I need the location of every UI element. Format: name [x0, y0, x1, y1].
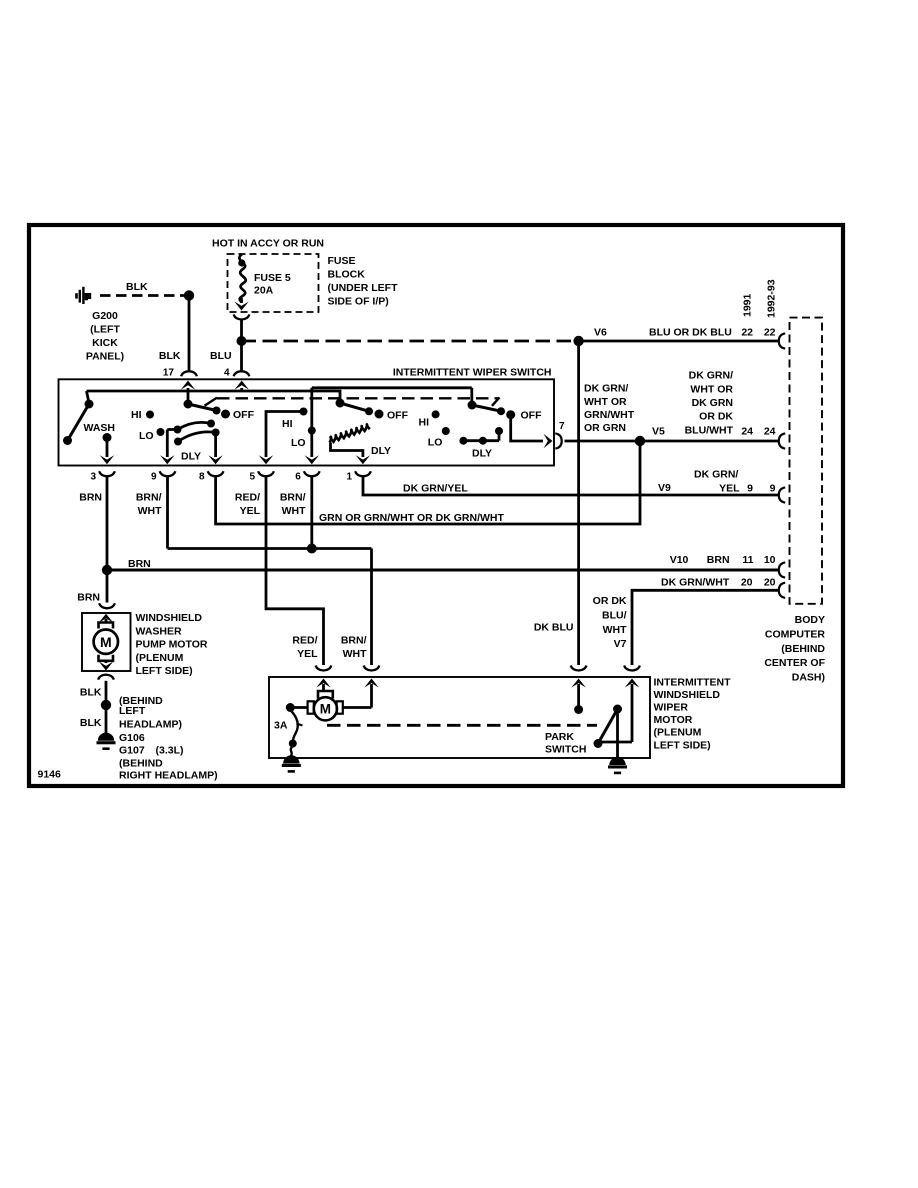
svg-text:KICK: KICK: [92, 337, 118, 349]
svg-text:(PLENUM: (PLENUM: [136, 652, 184, 664]
svg-text:9: 9: [151, 472, 157, 483]
svg-text:DASH): DASH): [792, 672, 825, 684]
svg-text:INTERMITTENT: INTERMITTENT: [654, 677, 732, 689]
svg-text:9: 9: [770, 483, 776, 495]
svg-text:11: 11: [742, 554, 753, 566]
svg-text:MOTOR: MOTOR: [654, 714, 693, 726]
svg-text:OFF: OFF: [521, 410, 543, 422]
svg-text:DLY: DLY: [371, 445, 391, 457]
svg-text:10: 10: [764, 554, 776, 566]
svg-text:4: 4: [224, 368, 230, 379]
svg-text:HI: HI: [419, 417, 430, 429]
svg-text:BRN/: BRN/: [280, 492, 306, 504]
svg-text:20A: 20A: [254, 285, 274, 297]
svg-text:BRN: BRN: [79, 492, 102, 504]
svg-text:LEFT SIDE): LEFT SIDE): [136, 665, 193, 677]
svg-text:BLK: BLK: [159, 350, 181, 362]
svg-text:CENTER OF: CENTER OF: [764, 657, 825, 669]
svg-text:V7: V7: [614, 638, 627, 650]
svg-text:LO: LO: [291, 437, 306, 449]
svg-text:17: 17: [163, 368, 175, 379]
svg-text:DK GRN/: DK GRN/: [694, 469, 738, 481]
svg-text:RIGHT HEADLAMP): RIGHT HEADLAMP): [119, 770, 218, 782]
svg-text:WHT OR: WHT OR: [690, 383, 733, 395]
svg-text:YEL: YEL: [240, 505, 261, 517]
svg-text:BLU/WHT: BLU/WHT: [685, 424, 734, 436]
svg-text:22: 22: [764, 327, 776, 339]
svg-text:DK GRN: DK GRN: [692, 397, 733, 409]
svg-text:LO: LO: [139, 430, 154, 442]
svg-text:DK BLU: DK BLU: [534, 622, 574, 634]
svg-text:(LEFT: (LEFT: [90, 324, 120, 336]
svg-text:3A: 3A: [274, 720, 288, 732]
svg-text:GRN OR GRN/WHT OR DK GRN/WHT: GRN OR GRN/WHT OR DK GRN/WHT: [319, 512, 504, 524]
svg-text:DLY: DLY: [181, 451, 201, 463]
svg-text:WHT OR: WHT OR: [584, 396, 627, 408]
svg-text:(BEHIND: (BEHIND: [119, 757, 163, 769]
svg-text:BLK: BLK: [80, 687, 102, 699]
svg-text:(PLENUM: (PLENUM: [654, 727, 702, 739]
svg-text:20: 20: [764, 577, 776, 589]
svg-text:SWITCH: SWITCH: [545, 744, 586, 756]
svg-text:WIPER: WIPER: [654, 702, 689, 714]
svg-text:BRN/: BRN/: [136, 492, 162, 504]
svg-text:WASH: WASH: [84, 422, 116, 434]
svg-text:3: 3: [90, 472, 96, 483]
svg-text:HI: HI: [131, 409, 142, 421]
svg-text:9: 9: [747, 483, 753, 495]
svg-text:BRN: BRN: [707, 554, 730, 566]
svg-text:M: M: [320, 702, 331, 717]
svg-text:BRN: BRN: [77, 592, 100, 604]
svg-text:V6: V6: [594, 327, 607, 339]
svg-text:22: 22: [741, 327, 753, 339]
svg-text:FUSE 5: FUSE 5: [254, 272, 291, 284]
svg-text:YEL: YEL: [297, 648, 318, 660]
svg-text:LEFT SIDE): LEFT SIDE): [654, 739, 711, 751]
svg-text:1991: 1991: [742, 293, 754, 317]
svg-text:OFF: OFF: [233, 409, 255, 421]
svg-text:BODY: BODY: [795, 614, 825, 626]
svg-text:WINDSHIELD: WINDSHIELD: [654, 689, 721, 701]
svg-text:(3.3L): (3.3L): [156, 745, 184, 757]
svg-text:RED/: RED/: [235, 492, 260, 504]
svg-text:WHT: WHT: [343, 648, 367, 660]
svg-text:WINDSHIELD: WINDSHIELD: [136, 612, 203, 624]
svg-text:(BEHIND: (BEHIND: [781, 643, 825, 655]
svg-text:FUSE: FUSE: [328, 255, 356, 267]
svg-text:OR DK: OR DK: [699, 411, 733, 423]
svg-text:SIDE OF I/P): SIDE OF I/P): [328, 296, 389, 308]
svg-text:OFF: OFF: [387, 409, 409, 421]
svg-text:G200: G200: [92, 310, 118, 322]
svg-text:9146: 9146: [38, 769, 62, 781]
svg-text:BLK: BLK: [80, 717, 102, 729]
svg-text:WHT: WHT: [282, 505, 306, 517]
svg-text:5: 5: [249, 472, 255, 483]
svg-text:OR DK: OR DK: [593, 595, 627, 607]
svg-text:8: 8: [199, 472, 205, 483]
svg-text:G106: G106: [119, 732, 145, 744]
svg-text:7: 7: [559, 421, 565, 432]
svg-text:BLK: BLK: [126, 281, 148, 293]
svg-text:BLU: BLU: [210, 350, 232, 362]
svg-text:24: 24: [764, 426, 776, 438]
svg-text:LO: LO: [428, 437, 443, 449]
svg-text:V5: V5: [652, 426, 665, 438]
svg-text:HOT IN ACCY OR RUN: HOT IN ACCY OR RUN: [212, 238, 324, 250]
svg-text:WHT: WHT: [138, 505, 162, 517]
svg-text:LEFT: LEFT: [119, 705, 146, 717]
svg-text:INTERMITTENT WIPER SWITCH: INTERMITTENT WIPER SWITCH: [393, 367, 552, 379]
svg-text:HEADLAMP): HEADLAMP): [119, 719, 182, 731]
svg-text:BLU/: BLU/: [602, 609, 627, 621]
svg-text:1: 1: [346, 472, 352, 483]
svg-text:6: 6: [295, 472, 301, 483]
svg-text:DK GRN/: DK GRN/: [584, 383, 628, 395]
svg-text:WHT: WHT: [603, 624, 627, 636]
svg-text:OR GRN: OR GRN: [584, 422, 626, 434]
svg-text:BLOCK: BLOCK: [328, 269, 366, 281]
svg-text:1992-93: 1992-93: [766, 279, 778, 318]
svg-text:G107: G107: [119, 745, 145, 757]
svg-text:20: 20: [741, 577, 753, 589]
svg-text:V9: V9: [658, 482, 671, 494]
svg-text:WASHER: WASHER: [136, 625, 183, 637]
svg-text:PARK: PARK: [545, 731, 574, 743]
svg-text:GRN/WHT: GRN/WHT: [584, 409, 635, 421]
svg-text:(UNDER LEFT: (UNDER LEFT: [328, 282, 399, 294]
svg-text:M: M: [100, 634, 112, 650]
svg-text:24: 24: [741, 426, 753, 438]
svg-text:YEL: YEL: [719, 483, 740, 495]
svg-text:BRN/: BRN/: [341, 635, 367, 647]
svg-text:V10: V10: [670, 554, 689, 566]
svg-text:BRN: BRN: [128, 558, 151, 570]
svg-text:BLU OR DK BLU: BLU OR DK BLU: [649, 327, 732, 339]
svg-text:RED/: RED/: [292, 635, 317, 647]
svg-text:DK GRN/: DK GRN/: [689, 370, 733, 382]
svg-text:DK GRN/WHT: DK GRN/WHT: [661, 577, 730, 589]
svg-text:HI: HI: [282, 418, 293, 430]
svg-text:DK GRN/YEL: DK GRN/YEL: [403, 483, 468, 495]
svg-text:DLY: DLY: [472, 448, 492, 460]
svg-text:PANEL): PANEL): [86, 351, 124, 363]
svg-text:PUMP MOTOR: PUMP MOTOR: [136, 639, 208, 651]
svg-text:COMPUTER: COMPUTER: [765, 628, 826, 640]
